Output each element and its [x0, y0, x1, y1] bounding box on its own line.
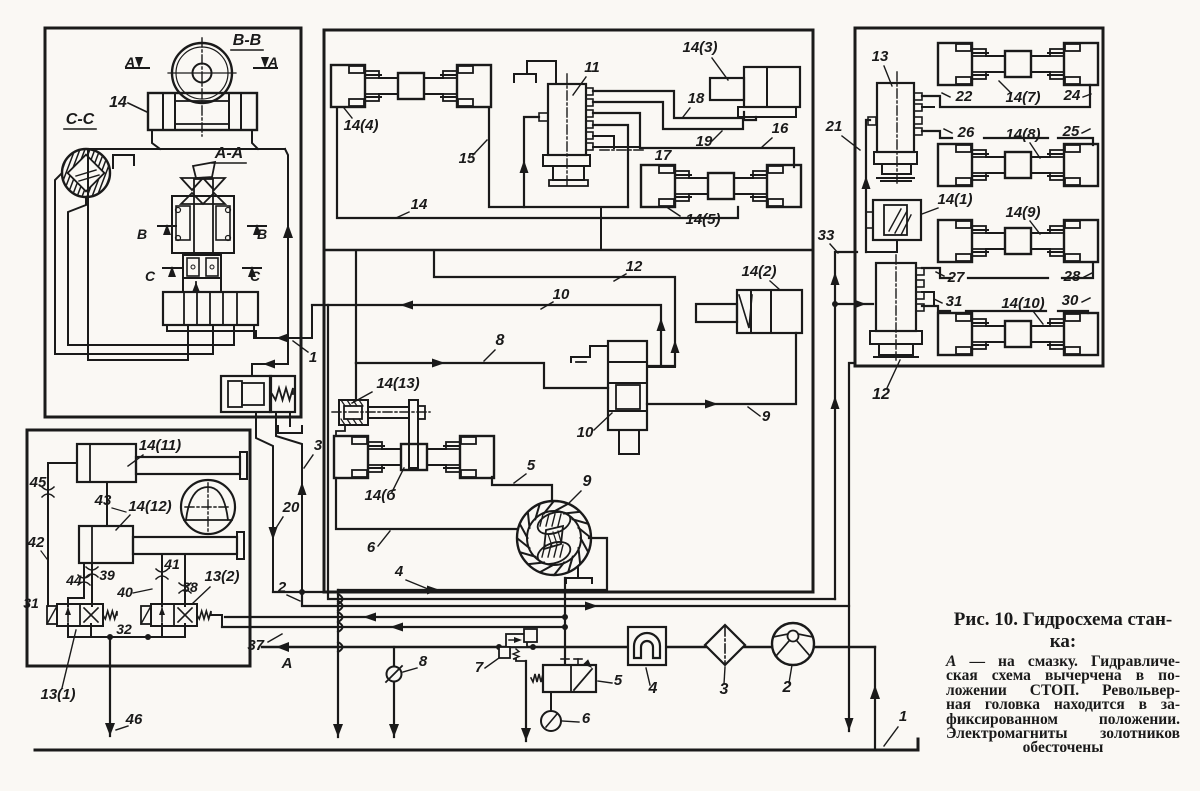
label 14(9): [1005, 204, 1040, 234]
svg-text:14(2): 14(2): [741, 263, 776, 280]
wire 43 link: [106, 482, 108, 526]
svg-text:14(13): 14(13): [376, 375, 419, 392]
label 38: [182, 579, 198, 595]
svg-text:С-С: С-С: [66, 111, 95, 128]
wire left drop x68: [68, 197, 86, 345]
wire bus y627: [222, 623, 568, 632]
cam follower circle: [181, 480, 235, 534]
valve 11: [539, 74, 593, 186]
label 14 (unit): [109, 94, 147, 112]
svg-text:4: 4: [394, 563, 404, 580]
tank line: [35, 739, 918, 750]
svg-text:28: 28: [1063, 268, 1081, 285]
label 40: [116, 584, 152, 600]
label 4 (line): [394, 563, 428, 589]
relief valve 7: [499, 629, 537, 661]
cylinder 14(5): [641, 165, 801, 207]
rotary tank bracket: [566, 567, 592, 583]
label 14(5): [668, 208, 721, 228]
cylinder 14(9): [938, 220, 1098, 262]
label 10 (line): [541, 286, 570, 309]
svg-text:31: 31: [946, 293, 963, 310]
wire 9: [647, 333, 796, 409]
svg-text:12: 12: [626, 258, 643, 275]
label 46: [116, 711, 143, 730]
wire 20 elbow: [256, 412, 278, 592]
svg-text:14(1): 14(1): [937, 191, 972, 208]
cylinder 14(4): [331, 65, 491, 107]
svg-text:22: 22: [955, 88, 973, 105]
right enclosure box: [855, 28, 1103, 366]
label 15: [459, 140, 487, 167]
bracket step: [113, 155, 134, 168]
cylinder 14(7): [938, 43, 1098, 85]
label 2 (pump): [782, 665, 792, 696]
wire 39 drop: [86, 563, 98, 606]
wire 6: [336, 478, 517, 529]
label 18: [683, 90, 705, 117]
wire right box drain: [845, 363, 855, 731]
label 45: [29, 474, 47, 491]
svg-text:45: 45: [29, 474, 47, 491]
C-C bearing circle: [50, 144, 127, 202]
clamp mechanism 14(13): [332, 400, 430, 468]
wire row 31-30: [922, 306, 1088, 313]
wire row 22-24: [922, 85, 1090, 107]
svg-text:18: 18: [688, 90, 705, 107]
wire 10: [312, 301, 666, 367]
label 14(6): [365, 468, 404, 504]
label 13(1): [40, 630, 76, 703]
wire clamp link: [336, 425, 345, 436]
valve 5 (lubricator): [531, 659, 596, 692]
label 1 (line): [293, 341, 317, 366]
label 6 (line): [367, 531, 390, 556]
svg-text:9: 9: [762, 408, 771, 425]
wire bus y354: [55, 325, 213, 354]
wire valve10 top ports: [647, 366, 675, 368]
svg-text:32: 32: [116, 621, 132, 637]
wire 13(2) out: [211, 615, 222, 627]
svg-text:6: 6: [582, 710, 591, 727]
wire 3 elbow: [276, 412, 307, 592]
label 14(3): [682, 39, 728, 80]
svg-text:А-А: А-А: [214, 145, 243, 162]
svg-text:5: 5: [527, 457, 536, 474]
wire 15 loop: [489, 108, 628, 207]
svg-text:С: С: [145, 268, 156, 284]
wire 21: [862, 117, 877, 252]
svg-text:14(12): 14(12): [128, 498, 171, 515]
label 43: [94, 492, 126, 512]
svg-text:2: 2: [782, 679, 792, 696]
divider of middle box: [324, 249, 813, 251]
manifold block: [163, 292, 258, 325]
svg-text:21: 21: [825, 118, 843, 135]
label 3 (filter): [720, 667, 729, 698]
turret indexing mechanism A-A: [172, 162, 234, 292]
valve 13: [874, 72, 922, 183]
label 37: [247, 634, 282, 654]
svg-text:A: A: [267, 54, 278, 70]
label 39: [99, 567, 115, 583]
tank bracket valve10: [571, 346, 608, 362]
svg-text:13(1): 13(1): [40, 686, 75, 703]
section mark B right: [248, 224, 267, 242]
wire 33: [831, 252, 858, 599]
tank bracket above valve 11: [514, 74, 536, 82]
svg-text:37: 37: [247, 637, 264, 654]
wire main pressure line: [262, 642, 875, 652]
wire 1 into left box: [256, 305, 312, 343]
svg-text:14(5): 14(5): [685, 211, 720, 228]
label 32: [116, 621, 132, 637]
wire 4: [338, 538, 607, 595]
label 1 (tank): [884, 708, 907, 746]
wire left drop x88: [87, 149, 89, 360]
wire port12: [922, 292, 934, 306]
label 25: [1062, 123, 1090, 140]
svg-text:2: 2: [277, 579, 287, 596]
label 2: [277, 579, 300, 601]
svg-text:5: 5: [614, 672, 623, 689]
wire 19: [593, 102, 756, 129]
wire suction: [870, 647, 880, 750]
svg-text:15: 15: [459, 150, 476, 167]
svg-text:20: 20: [282, 499, 300, 516]
valve 12: [870, 255, 924, 360]
label 3: [304, 437, 323, 468]
section mark C right: [243, 266, 261, 284]
label 7: [475, 658, 499, 676]
section mark B left: [137, 224, 176, 242]
pump 2: [772, 623, 814, 665]
filter 3: [705, 625, 745, 665]
label 14(10): [1001, 295, 1044, 324]
wire 41 drop: [156, 554, 168, 606]
wire 16: [593, 113, 794, 167]
svg-text:43: 43: [94, 492, 112, 509]
svg-text:24: 24: [1063, 87, 1081, 104]
tank bracket under relief valve: [278, 412, 302, 433]
label 14(8): [1005, 126, 1040, 158]
cylinder 14(6): [334, 436, 494, 478]
svg-text:13: 13: [872, 48, 889, 65]
wire bus y606: [273, 589, 849, 611]
label 14(7): [999, 81, 1041, 106]
label 19: [696, 131, 722, 150]
wire stub x254: [253, 325, 255, 338]
svg-text:14(4): 14(4): [343, 117, 378, 134]
label 41: [163, 556, 180, 572]
label 14(2): [741, 263, 779, 289]
label 9 (line): [748, 407, 771, 425]
label 14(13): [352, 375, 420, 403]
label 5 (line): [514, 457, 536, 483]
svg-text:10: 10: [577, 424, 594, 441]
wire bus y345: [68, 325, 234, 345]
wire bus y617: [225, 613, 568, 622]
svg-text:14(10): 14(10): [1001, 295, 1044, 312]
svg-text:39: 39: [99, 567, 115, 583]
label 14(12): [116, 498, 172, 530]
wire row 27-28: [922, 263, 1093, 278]
wire 12: [434, 252, 680, 366]
label 20: [276, 499, 300, 528]
wire 18: [593, 91, 744, 118]
label 5 (valve): [598, 672, 623, 689]
label 42: [27, 534, 47, 559]
valve 10: [608, 341, 647, 454]
label 9 (rotary): [569, 473, 592, 503]
wire port6: [593, 146, 640, 148]
label 14(4): [343, 108, 378, 134]
svg-text:33: 33: [818, 227, 835, 244]
wire header under valve 14: [85, 130, 285, 149]
svg-text:14(б: 14(б: [365, 487, 397, 504]
svg-text:3: 3: [314, 437, 323, 454]
B-B turret circle: [168, 38, 236, 136]
label 6 (gauge): [562, 710, 591, 727]
label 14(11): [128, 437, 181, 466]
svg-text:14(8): 14(8): [1005, 126, 1040, 143]
solenoid valve 13(2): [141, 604, 211, 626]
wire drain bus: [68, 624, 185, 640]
view label B-B: [231, 32, 263, 50]
svg-text:8: 8: [496, 332, 505, 349]
label 27: [936, 269, 965, 286]
svg-text:38: 38: [182, 579, 198, 595]
svg-text:10: 10: [553, 286, 570, 303]
cylinder 14(3): [710, 67, 800, 117]
svg-text:14(7): 14(7): [1005, 89, 1040, 106]
svg-text:1: 1: [309, 349, 317, 366]
label 14 (line): [396, 196, 428, 218]
wire 8: [356, 252, 608, 400]
label 44: [65, 572, 82, 588]
svg-text:7: 7: [475, 659, 484, 676]
svg-text:9: 9: [583, 473, 592, 490]
label 31 (solenoid): [23, 595, 39, 611]
svg-text:44: 44: [65, 572, 82, 588]
middle enclosure box: [324, 30, 813, 592]
pressure gauge 6: [541, 692, 561, 731]
svg-text:8: 8: [419, 653, 428, 670]
label 8 (check): [403, 653, 428, 672]
label 14(1): [922, 191, 973, 214]
view label C-C: [64, 111, 96, 129]
wire 5: [492, 477, 552, 501]
svg-text:17: 17: [655, 147, 672, 164]
cylinder 14(8): [938, 144, 1098, 186]
label 24: [1063, 87, 1091, 104]
magnetic separator 4: [628, 627, 666, 665]
svg-text:14(9): 14(9): [1005, 204, 1040, 221]
svg-text:14: 14: [411, 196, 428, 213]
wire valve5 feed: [564, 578, 566, 665]
label 4 (separator): [646, 668, 658, 697]
svg-text:27: 27: [947, 269, 965, 286]
wire 45 drop: [42, 463, 77, 606]
valve body 14: [148, 93, 257, 130]
label 10 (valve): [577, 413, 612, 441]
label 28: [1063, 268, 1092, 285]
svg-text:14(11): 14(11): [139, 437, 181, 454]
wire bus y331: [167, 325, 256, 331]
label 13 (valve): [872, 48, 892, 86]
svg-text:14(3): 14(3): [682, 39, 717, 56]
bottom-left enclosure box: [27, 430, 250, 666]
wire 14(1) stub: [866, 242, 897, 252]
svg-text:40: 40: [116, 584, 133, 600]
wire port13-4: [922, 130, 934, 132]
svg-text:14: 14: [109, 94, 127, 111]
wire drain x526: [521, 661, 531, 741]
svg-text:А: А: [281, 655, 293, 672]
wire bus y599: [328, 305, 835, 599]
svg-text:30: 30: [1062, 292, 1079, 309]
cylinder 14(11): [77, 444, 247, 482]
wire into relief valve: [252, 360, 288, 377]
wire feed x288: [283, 149, 293, 364]
svg-text:16: 16: [772, 120, 789, 137]
section arrow A right: [254, 54, 278, 70]
svg-text:В-В: В-В: [233, 32, 261, 49]
svg-text:11: 11: [584, 59, 600, 76]
label 12 (valve): [872, 360, 900, 403]
cylinder 14(10): [938, 313, 1098, 355]
svg-text:В: В: [137, 226, 147, 242]
svg-text:25: 25: [1062, 123, 1080, 140]
wire 17 port: [593, 125, 628, 207]
label 17 dashes: [600, 147, 672, 164]
wire 46 drain: [105, 637, 115, 736]
label A (lubrication): [281, 655, 293, 672]
label 11: [573, 59, 600, 95]
svg-text:13(2): 13(2): [204, 568, 239, 585]
solenoid valve 13(1): [47, 604, 117, 626]
label 8 (line): [484, 332, 505, 361]
svg-text:42: 42: [27, 534, 45, 551]
svg-text:6: 6: [367, 539, 376, 556]
label 30 (row): [1062, 292, 1090, 309]
svg-text:A: A: [124, 54, 135, 70]
svg-text:26: 26: [957, 124, 975, 141]
enclosure box of unit 14 (top-left): [45, 28, 301, 417]
label 21: [825, 118, 860, 150]
valve 14(1): [866, 200, 921, 240]
view label A-A: [212, 145, 246, 163]
label 16: [762, 120, 789, 147]
label 22: [942, 88, 973, 105]
wire valve11 top to bracket: [527, 61, 556, 84]
wire x601 stub: [600, 207, 602, 250]
label 26: [944, 124, 975, 141]
wire 44 drop: [68, 563, 90, 606]
svg-text:41: 41: [163, 556, 180, 572]
wire hops at x338: [338, 594, 343, 652]
relief valve: [221, 376, 295, 412]
wire row 26-25: [922, 131, 1093, 145]
check valve 8: [386, 647, 402, 737]
wire port5: [593, 136, 614, 148]
cylinder 14(2): [696, 290, 802, 333]
label 13(2): [193, 568, 240, 603]
svg-text:1: 1: [899, 708, 907, 725]
wire 14 line: [337, 108, 738, 218]
label 12 (line): [614, 258, 643, 281]
label 31 (row): [934, 293, 962, 310]
wire 33 to valve12: [832, 300, 873, 309]
rotary actuator 9: [517, 501, 591, 575]
wire tank drop x338: [333, 590, 343, 737]
label 33: [818, 227, 838, 253]
svg-text:31: 31: [23, 595, 39, 611]
svg-text:46: 46: [125, 711, 143, 728]
section mark C left: [145, 266, 181, 284]
wire left drop x55: [55, 173, 62, 354]
wire bus y360: [88, 325, 188, 360]
wire 38 drop: [179, 554, 191, 606]
section arrow A left: [124, 54, 149, 70]
cylinder 14(12): [79, 526, 244, 563]
wire port13-2: [922, 106, 934, 108]
